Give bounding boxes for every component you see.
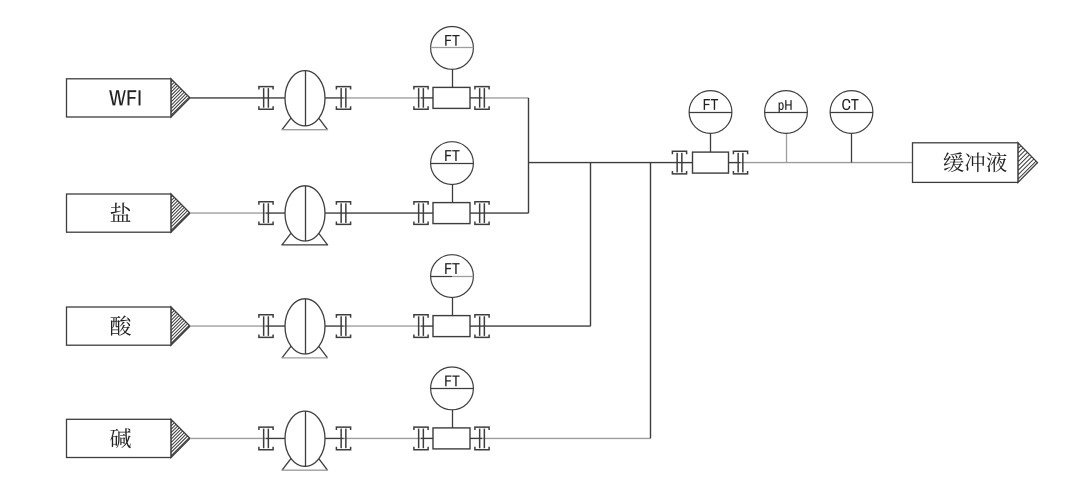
clamp fitting bbox=[414, 202, 428, 225]
wire bbox=[323, 97, 344, 99]
wire bbox=[786, 133, 788, 162]
wire bbox=[468, 325, 482, 327]
pump P4 bbox=[281, 411, 328, 470]
flow meter body bbox=[433, 316, 470, 337]
clamp fitting bbox=[475, 87, 489, 110]
flow meter body bbox=[433, 428, 470, 449]
flow transmitter FT bbox=[431, 142, 474, 185]
source box 碱 bbox=[67, 414, 280, 460]
wire bbox=[590, 163, 592, 327]
pH sensor bbox=[765, 91, 808, 134]
clamp fitting bbox=[336, 202, 350, 225]
clamp fitting bbox=[414, 87, 428, 110]
clamp fitting bbox=[259, 87, 273, 110]
clamp fitting bbox=[414, 315, 428, 338]
wire bbox=[452, 69, 454, 87]
clamp fitting bbox=[475, 202, 489, 225]
wire bbox=[482, 325, 591, 327]
clamp fitting bbox=[475, 315, 489, 338]
clamp fitting bbox=[259, 202, 273, 225]
wire bbox=[528, 98, 530, 213]
wire bbox=[452, 298, 454, 316]
wire bbox=[421, 97, 435, 99]
flow transmitter FT bbox=[431, 27, 474, 70]
clamp fitting bbox=[733, 151, 747, 174]
clamp fitting bbox=[336, 87, 350, 110]
flow transmitter FT bbox=[689, 91, 732, 134]
clamp fitting bbox=[259, 427, 273, 450]
pump P3 bbox=[281, 299, 328, 358]
flow meter body bbox=[433, 87, 470, 108]
source box 酸 bbox=[67, 301, 280, 347]
wire bbox=[680, 162, 695, 164]
wire bbox=[468, 97, 482, 99]
flow meter body bbox=[693, 152, 729, 173]
wire bbox=[482, 212, 529, 214]
wire bbox=[344, 97, 422, 99]
wire bbox=[421, 325, 435, 327]
clamp fitting bbox=[336, 315, 350, 338]
wire bbox=[468, 437, 482, 439]
wire bbox=[266, 437, 287, 439]
wire bbox=[190, 325, 266, 327]
flow transmitter FT bbox=[431, 255, 474, 298]
wire bbox=[482, 97, 529, 99]
clamp fitting bbox=[336, 427, 350, 450]
source box 盐 bbox=[67, 188, 280, 234]
flow transmitter FT bbox=[431, 367, 474, 410]
wire bbox=[323, 437, 344, 439]
wire bbox=[323, 325, 344, 327]
wire bbox=[266, 97, 287, 99]
source box WFI bbox=[67, 73, 280, 119]
wire bbox=[421, 212, 435, 214]
wire bbox=[190, 437, 266, 439]
wire bbox=[323, 212, 344, 214]
wire bbox=[344, 437, 422, 439]
conductivity sensor CT bbox=[830, 91, 873, 134]
wire bbox=[266, 325, 287, 327]
wire bbox=[421, 437, 435, 439]
clamp fitting bbox=[259, 315, 273, 338]
wire bbox=[482, 437, 651, 439]
wire bbox=[452, 185, 454, 203]
wire bbox=[851, 133, 853, 162]
flow meter body bbox=[433, 203, 470, 224]
wire bbox=[741, 162, 913, 164]
wire bbox=[650, 163, 652, 439]
wire bbox=[190, 212, 266, 214]
pump P2 bbox=[281, 186, 328, 245]
wire bbox=[266, 212, 287, 214]
wire bbox=[344, 325, 422, 327]
wire bbox=[344, 212, 422, 214]
wire bbox=[452, 410, 454, 428]
wire bbox=[468, 212, 482, 214]
clamp fitting bbox=[414, 427, 428, 450]
wire bbox=[529, 162, 680, 164]
clamp fitting bbox=[475, 427, 489, 450]
wire bbox=[727, 162, 741, 164]
sink box 缓冲液 bbox=[913, 138, 1080, 184]
wire bbox=[710, 133, 712, 152]
wire bbox=[190, 97, 266, 99]
clamp fitting bbox=[672, 151, 686, 174]
pump P1 bbox=[281, 71, 328, 130]
